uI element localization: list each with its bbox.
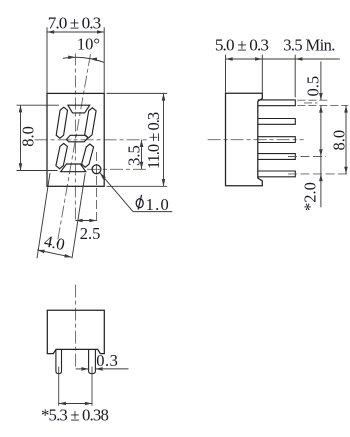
svg-text:7.0 ± 0.3: 7.0 ± 0.3 [48, 13, 101, 32]
svg-text:8.0: 8.0 [330, 130, 349, 151]
svg-text:*5.3 ± 0.38: *5.3 ± 0.38 [41, 405, 108, 424]
svg-text:3.5 Min.: 3.5 Min. [283, 36, 335, 55]
svg-text:8.0: 8.0 [18, 126, 37, 147]
svg-text:0.5: 0.5 [303, 76, 322, 97]
svg-text:*2.0: *2.0 [301, 182, 320, 211]
svg-text:2.5: 2.5 [80, 224, 101, 243]
svg-text:10°: 10° [77, 34, 100, 53]
svg-text:3.5: 3.5 [125, 145, 144, 166]
svg-text:1.0: 1.0 [146, 195, 170, 214]
svg-text:5.0 ± 0.3: 5.0 ± 0.3 [215, 36, 269, 55]
svg-text:11.0 ± 0.3: 11.0 ± 0.3 [144, 112, 163, 169]
svg-text:0.3: 0.3 [96, 351, 118, 370]
